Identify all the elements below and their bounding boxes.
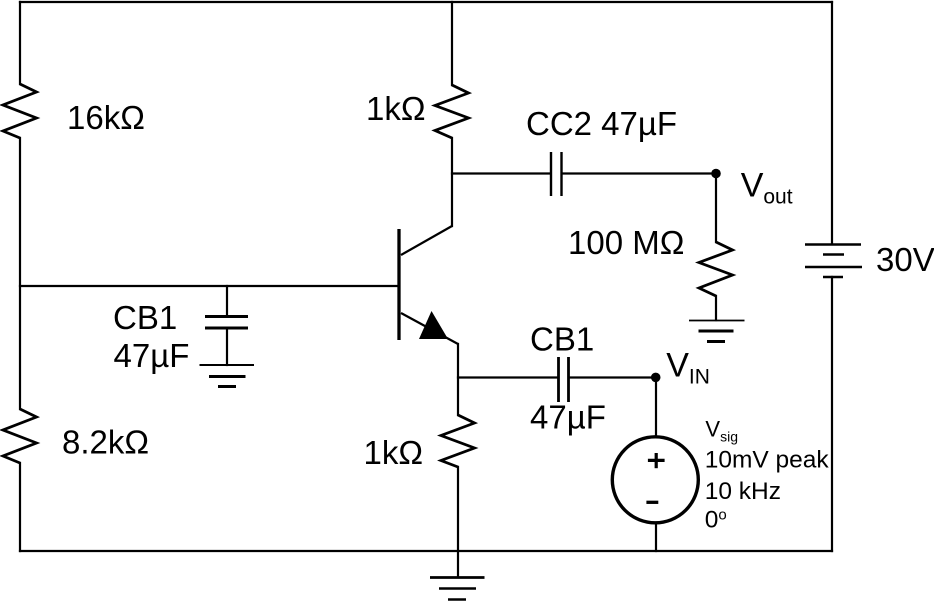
svg-text:1kΩ: 1kΩ (364, 434, 424, 471)
node VIN junction dot (651, 373, 661, 383)
source Vsig circle (612, 437, 698, 523)
wire Vout node down to 100M resistor (715, 174, 717, 242)
resistor 1k (collector) (435, 85, 469, 138)
wire VIN node down to Vsig source (655, 378, 657, 437)
wire 100M resistor to ground (715, 296, 717, 320)
wire emitter node to CB1 output cap (458, 376, 558, 378)
svg-text:47µF: 47µF (114, 337, 190, 374)
transistor Q1 collector lead (401, 226, 452, 255)
wire CB1 base-cap stub upper (226, 286, 228, 317)
wire left rail middle segment (19, 138, 21, 409)
wire Vsig source to bottom rail (655, 523, 657, 551)
svg-text:10 kHz: 10 kHz (705, 478, 781, 505)
svg-text:CB1: CB1 (113, 299, 177, 336)
ground under emitter resistor (430, 578, 485, 600)
battery 30V symbol (805, 245, 862, 278)
wire emitter vertical to 1k resistor (457, 344, 459, 415)
wire CB1 output cap to VIN node (569, 376, 656, 378)
node Vout junction dot (711, 169, 721, 179)
ground under 100M resistor (689, 321, 745, 342)
svg-text:47µF: 47µF (530, 399, 606, 436)
transistor Q1 emitter arrow (419, 311, 448, 339)
wire top rail (20, 1, 832, 3)
capacitor CB1 base plates (205, 317, 248, 329)
wire bottom rail (20, 550, 832, 552)
wire base rail (20, 285, 397, 287)
resistor 8.2k (left lower) (3, 409, 37, 463)
svg-text:100 MΩ: 100 MΩ (568, 224, 684, 261)
svg-text:10mV peak: 10mV peak (705, 447, 830, 474)
ground under CB1 base cap (200, 365, 255, 387)
svg-text:16kΩ: 16kΩ (67, 99, 145, 136)
resistor 1k (emitter) (441, 415, 475, 467)
svg-text:8.2kΩ: 8.2kΩ (62, 424, 149, 461)
transistor Q1 emitter lead (401, 313, 458, 344)
capacitor CC2 plates (551, 152, 562, 196)
wire left rail bottom segment (19, 463, 21, 551)
svg-text:1kΩ: 1kΩ (366, 90, 426, 127)
wire emitter resistor to ground through bottom rail (457, 467, 459, 577)
wire right rail lower (battery - to bottom) (831, 277, 833, 551)
svg-text:CC2 47µF: CC2 47µF (526, 105, 677, 142)
source Vsig plus sign (648, 453, 665, 468)
capacitor CB1 output plates (559, 357, 569, 402)
wire collector branch from top rail (451, 2, 453, 85)
resistor 16k (left upper) (3, 84, 37, 138)
wire collector vertical below 1k resistor (451, 138, 453, 226)
svg-text:CB1: CB1 (530, 321, 594, 358)
wire left rail top segment (19, 2, 21, 84)
wire collector node to CC2 left plate (452, 172, 550, 174)
wire CB1 base-cap stub lower (226, 328, 228, 365)
source Vsig minus sign (646, 501, 658, 504)
wire right rail upper (to battery +) (831, 2, 833, 244)
transistor Q1 base bar (397, 229, 400, 340)
svg-text:30V: 30V (876, 241, 934, 278)
resistor 100M (load) (699, 242, 733, 296)
wire CC2 right plate to Vout node (563, 172, 717, 174)
